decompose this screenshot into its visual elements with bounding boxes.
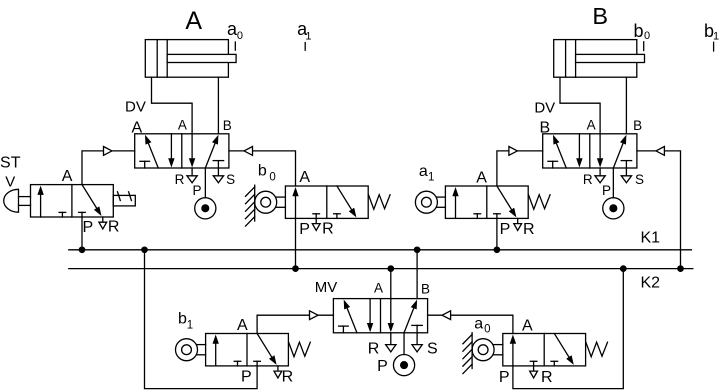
- valve MV 5/2 body: [333, 299, 427, 333]
- valve a0 3/2 roller (actuated) exhaust R: [530, 366, 538, 378]
- compressed air supply P of DV-B: [603, 168, 624, 219]
- junction K2 / DV-B pilot: [678, 266, 683, 271]
- pilot direction triangle (K2 to DV-B): [656, 147, 665, 156]
- svg-text:b: b: [178, 311, 187, 328]
- svg-text:a: a: [474, 315, 483, 332]
- roller actuator of b0: [255, 191, 286, 213]
- svg-text:P: P: [83, 219, 94, 236]
- pilot wire K2 to DV-B right pilot: [637, 151, 681, 269]
- svg-text:P: P: [377, 358, 388, 375]
- valve b0 3/2 roller (actuated) left position: R blocked: [313, 214, 320, 219]
- valve DV (cyl. A) 5/2 exhaust R: [187, 168, 197, 183]
- label a0 (valve): [474, 315, 490, 335]
- cam wall pressing a0: [463, 333, 472, 374]
- svg-text:A: A: [299, 169, 310, 186]
- roller actuator of a0: [472, 339, 503, 361]
- svg-text:R: R: [322, 221, 334, 238]
- return spring of b1: [289, 342, 311, 357]
- svg-text:a: a: [419, 163, 428, 180]
- svg-text:B: B: [421, 281, 430, 296]
- svg-text:b: b: [633, 21, 643, 41]
- svg-text:R: R: [175, 172, 185, 187]
- valve a1 3/2 roller exhaust R: [514, 218, 522, 230]
- valve ST 3/2 pushbutton exhaust R: [99, 217, 107, 229]
- svg-text:A: A: [131, 119, 142, 136]
- svg-text:B: B: [633, 118, 642, 133]
- valve b1 3/2 roller exhaust R: [274, 366, 282, 378]
- svg-text:S: S: [226, 172, 235, 187]
- valve DV (cyl. B) 5/2 left position: R blocked: [548, 161, 558, 168]
- junction K1 / MV B: [414, 247, 419, 252]
- valve b0 3/2 roller (actuated) right position: flow A to R: [337, 186, 357, 217]
- sensor mark b0: [633, 21, 650, 50]
- pilot direction triangle (a0 to MV): [442, 311, 451, 320]
- svg-text:K2: K2: [640, 275, 660, 292]
- valve MV 5/2 left position: flow B to S: [367, 299, 373, 333]
- pilot wire a0 output A to MV right pilot: [428, 315, 513, 333]
- valve MV 5/2 left position: R blocked: [339, 326, 349, 333]
- valve DV (cyl. A) 5/2 right position: S blocked: [213, 161, 223, 168]
- svg-text:P: P: [193, 183, 202, 198]
- valve a1 3/2 roller left position: flow P to A: [452, 187, 458, 218]
- svg-text:S: S: [427, 340, 438, 357]
- wire a1 port P to bus K1: [496, 218, 498, 249]
- valve a1 3/2 roller right position (rest): flow A to R: [497, 186, 517, 217]
- valve b1 3/2 roller left position: flow P to A: [213, 335, 219, 366]
- valve MV 5/2 right position: flow A to R: [388, 299, 394, 333]
- wire cylinder B left port to DV-B port A: [560, 77, 600, 134]
- svg-text:DV: DV: [534, 99, 555, 116]
- label a1 (valve): [419, 163, 435, 184]
- svg-text:MV: MV: [315, 279, 338, 296]
- svg-text:P: P: [299, 221, 310, 238]
- pilot wire ST output A to DV-A left pilot: [82, 151, 135, 185]
- junction K2 / b0 P: [293, 266, 298, 271]
- roller actuator of a1: [415, 191, 445, 213]
- svg-text:R: R: [368, 340, 380, 357]
- valve b1 3/2 roller body: [206, 334, 289, 366]
- pilot direction triangle (a1 to DV-B): [509, 147, 518, 156]
- valve DV (cyl. B) 5/2 right position: S blocked: [621, 161, 631, 168]
- wire b1 port P to bus K1: [145, 250, 258, 389]
- valve b0 3/2 roller (actuated) body: [285, 186, 368, 218]
- wire b0 port P to bus K2: [295, 218, 297, 268]
- junction K1 / a1 P: [494, 247, 499, 252]
- valve a0 3/2 roller (actuated) right position: P blocked: [551, 361, 558, 366]
- valve a0 3/2 roller (actuated) left position: R blocked: [530, 361, 537, 366]
- valve b0 3/2 roller (actuated) exhaust R: [312, 218, 320, 230]
- detent (latch) of ST: [113, 192, 135, 206]
- compressed air supply P of MV: [393, 333, 414, 376]
- valve a1 3/2 roller body: [445, 186, 528, 218]
- valve ST 3/2 pushbutton left position: R blocked: [59, 212, 66, 217]
- valve MV 5/2 right position: S blocked: [412, 325, 422, 332]
- wire MV output A to bus K2: [390, 269, 392, 299]
- svg-text:P: P: [500, 221, 511, 238]
- junction K1 / b1 P: [142, 247, 147, 252]
- sensor mark a1: [297, 19, 311, 50]
- valve ST 3/2 pushbutton body: [31, 185, 114, 217]
- svg-text:R: R: [282, 368, 294, 385]
- junction K2 / a0 P: [621, 266, 626, 271]
- valve DV (cyl. A) 5/2 right position: flow A to R: [189, 134, 195, 168]
- svg-text:A: A: [178, 117, 187, 132]
- svg-text:V: V: [5, 174, 15, 191]
- valve ST 3/2 pushbutton right position (rest): flow A to R: [82, 185, 102, 216]
- valve DV (cyl. B) 5/2 exhaust S: [621, 168, 631, 183]
- svg-text:A: A: [587, 117, 596, 132]
- valve DV (cyl. A) 5/2 left position: R blocked: [140, 161, 150, 168]
- valve b1 3/2 roller right position (rest): flow A to R: [257, 334, 277, 365]
- svg-text:1: 1: [187, 319, 193, 331]
- junction K2 / MV A: [388, 266, 393, 271]
- valve b1 3/2 roller left position: R blocked: [234, 361, 241, 366]
- svg-text:A: A: [185, 7, 202, 35]
- label b0 (valve): [258, 163, 276, 184]
- valve b0 3/2 roller (actuated) left position (active): flow P to A: [292, 187, 298, 218]
- valve DV (cyl. A) 5/2 left position: flow P to A: [145, 135, 158, 168]
- svg-text:0: 0: [237, 30, 243, 42]
- pilot direction triangle (b1 to MV): [310, 311, 319, 320]
- pushbutton actuator of ST: [4, 189, 31, 212]
- valve MV 5/2 exhaust R: [386, 333, 396, 352]
- valve a0 3/2 roller (actuated) left position (active): flow P to A: [510, 335, 516, 366]
- svg-text:K1: K1: [640, 230, 660, 247]
- valve DV (cyl. A) 5/2 right position: flow P to B: [205, 135, 218, 168]
- valve DV (cyl. B) 5/2 right position: flow P to B: [613, 135, 626, 168]
- svg-text:R: R: [523, 221, 535, 238]
- svg-text:A: A: [522, 317, 533, 334]
- valve DV (cyl. B) 5/2 left position: flow B to S: [576, 134, 582, 168]
- bus line K2: [69, 268, 693, 270]
- roller actuator of b1: [176, 339, 206, 361]
- svg-text:P: P: [602, 183, 611, 198]
- valve MV 5/2 left position: flow P to A: [344, 300, 357, 333]
- valve DV (cyl. B) 5/2 left position: flow P to A: [553, 135, 566, 168]
- cylinder B (double acting): [554, 40, 645, 78]
- pilot direction triangle (b0 to DV-A): [244, 147, 253, 156]
- valve ST 3/2 pushbutton left position: flow P to A: [37, 186, 43, 217]
- valve MV 5/2 exhaust S: [412, 333, 422, 352]
- valve DV (cyl. A) 5/2 body: [135, 134, 229, 168]
- svg-text:1: 1: [305, 30, 311, 42]
- wire cylinder A right port to DV-A port B: [217, 77, 219, 134]
- valve DV (cyl. B) 5/2 body: [543, 134, 637, 168]
- svg-text:A: A: [237, 317, 248, 334]
- wire ST port P to bus K1: [81, 217, 83, 250]
- svg-text:R: R: [541, 369, 553, 386]
- svg-text:0: 0: [644, 30, 650, 42]
- svg-text:1: 1: [713, 31, 719, 43]
- svg-text:0: 0: [484, 323, 490, 335]
- return spring of a0: [586, 342, 608, 357]
- svg-text:ST: ST: [0, 155, 21, 172]
- valve MV 5/2 right position: flow P to B: [404, 300, 417, 333]
- valve a0 3/2 roller (actuated) right position: flow A to R: [554, 334, 574, 365]
- valve DV (cyl. A) 5/2 exhaust S: [213, 168, 223, 183]
- svg-text:B: B: [539, 119, 550, 136]
- svg-text:1: 1: [428, 172, 434, 184]
- wire cylinder A left port to DV-A port A: [152, 77, 193, 134]
- valve b1 3/2 roller right position: P blocked: [254, 361, 261, 366]
- svg-text:R: R: [583, 172, 593, 187]
- return spring of b0: [369, 195, 391, 210]
- svg-text:DV: DV: [125, 99, 146, 116]
- valve a1 3/2 roller left position: R blocked: [474, 214, 481, 219]
- cylinder A (double acting): [145, 40, 236, 78]
- valve DV (cyl. B) 5/2 exhaust R: [595, 168, 605, 183]
- valve a0 3/2 roller (actuated) body: [503, 334, 586, 366]
- cam wall pressing b0: [246, 185, 255, 226]
- return spring of a1: [529, 195, 551, 210]
- bus line K1: [69, 249, 692, 251]
- pilot wire b1 output A to MV left pilot: [257, 315, 333, 333]
- junction K1 / ST P: [79, 247, 84, 252]
- label b1 (valve): [178, 311, 193, 332]
- pilot wire a1 output A to DV-B left pilot: [497, 151, 543, 186]
- valve DV (cyl. B) 5/2 right position: flow A to R: [597, 134, 603, 168]
- svg-text:A: A: [62, 168, 73, 185]
- svg-text:0: 0: [269, 171, 275, 183]
- wire a0 port P to bus K2: [513, 269, 623, 389]
- svg-text:S: S: [635, 172, 644, 187]
- valve ST 3/2 pushbutton right position: P blocked: [79, 212, 86, 217]
- wire MV output B to bus K1: [416, 250, 418, 299]
- sensor mark a0: [227, 19, 243, 50]
- valve b0 3/2 roller (actuated) right position: P blocked: [334, 214, 341, 219]
- svg-text:P: P: [241, 368, 252, 385]
- compressed air supply P of DV-A: [195, 168, 216, 219]
- wire cylinder B right port to DV-B port B: [625, 77, 627, 134]
- svg-text:b: b: [258, 163, 267, 180]
- pilot direction triangle (ST to DV-A): [104, 147, 113, 156]
- valve a1 3/2 roller right position: P blocked: [494, 214, 501, 219]
- svg-text:B: B: [592, 3, 608, 29]
- svg-text:A: A: [374, 281, 383, 296]
- pilot wire b0 output A to DV-A right pilot: [229, 151, 296, 186]
- svg-text:A: A: [476, 169, 487, 186]
- svg-text:B: B: [223, 118, 232, 133]
- valve DV (cyl. A) 5/2 left position: flow B to S: [168, 134, 174, 168]
- svg-text:P: P: [499, 369, 510, 386]
- svg-text:R: R: [108, 219, 120, 236]
- sensor mark b1: [704, 21, 719, 51]
